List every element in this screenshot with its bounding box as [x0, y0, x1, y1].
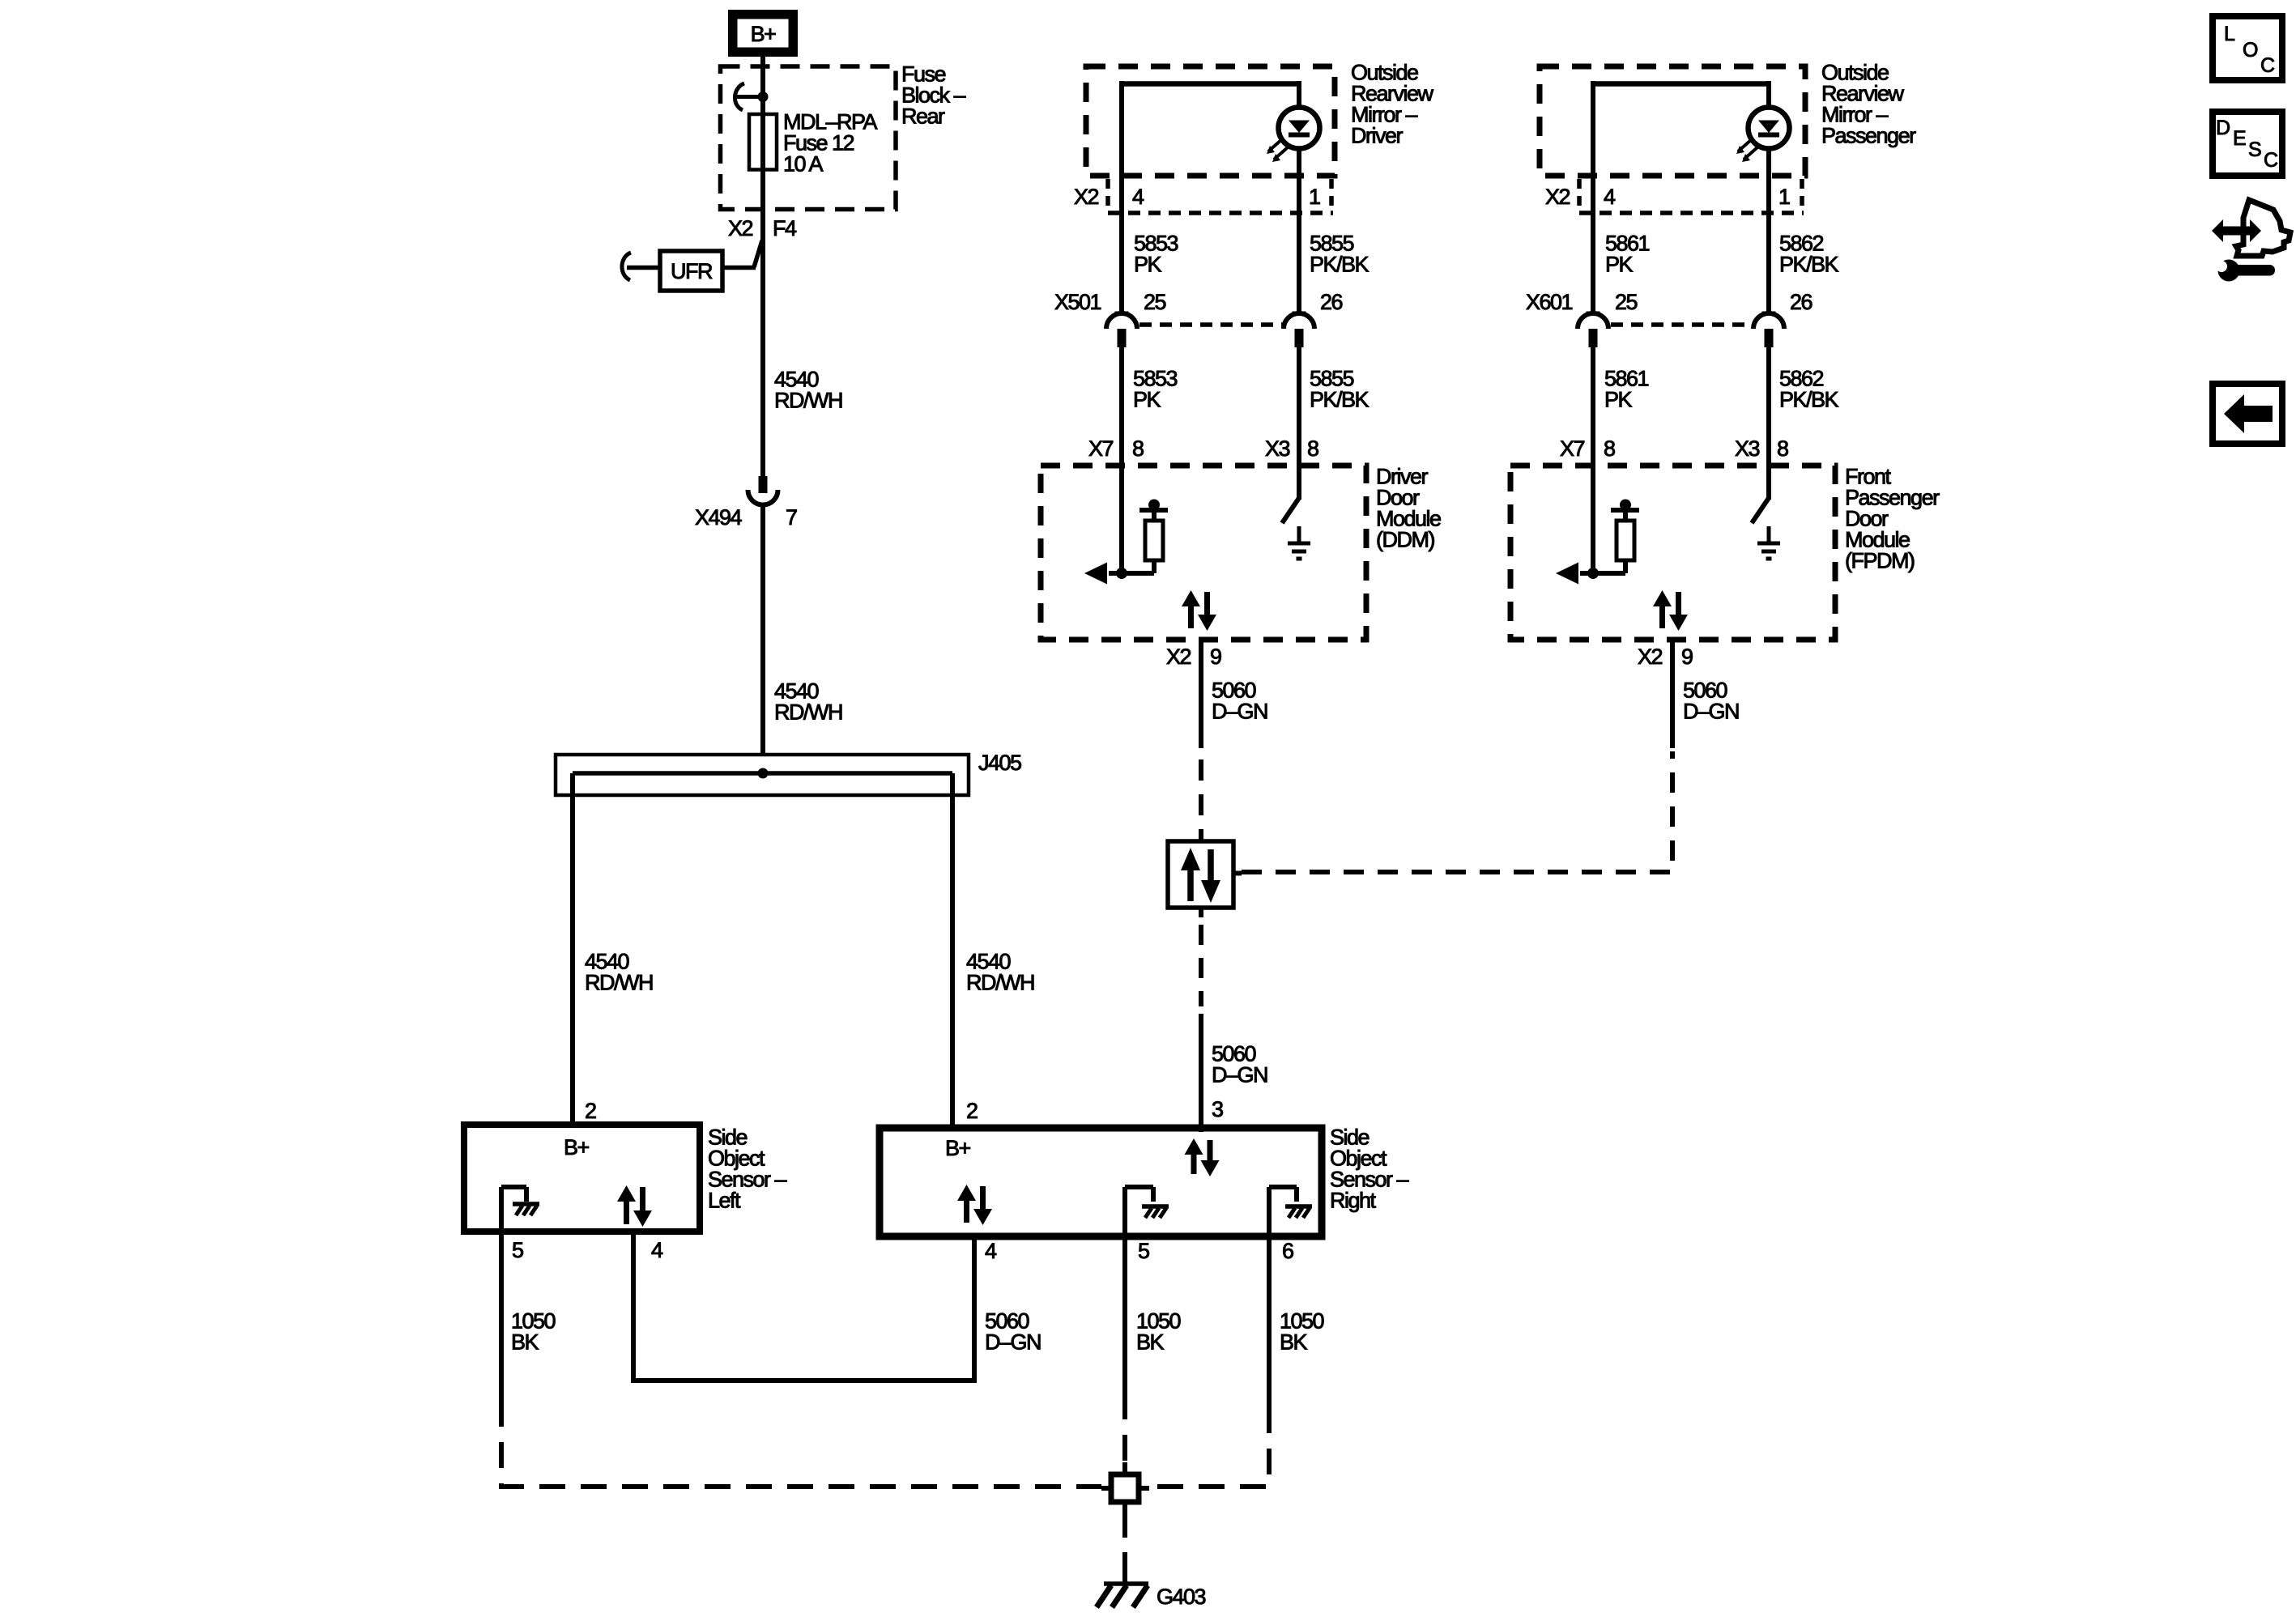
svg-text:C: C: [2264, 149, 2278, 172]
wire pin 6 right sensor 1050 BK: [1267, 1187, 1272, 1407]
wire junction box bottom stub: [1199, 908, 1203, 917]
svg-text:D–GN: D–GN: [1212, 1063, 1267, 1087]
svg-text:26: 26: [1790, 290, 1813, 314]
svg-text:PK: PK: [1605, 253, 1634, 277]
wire pin 5 right sensor 1050 BK: [1122, 1187, 1127, 1393]
svg-text:PK: PK: [1133, 388, 1161, 412]
svg-text:26: 26: [1320, 290, 1343, 314]
power node B+ (battery positive) box: [728, 10, 798, 57]
wire clip to bus junction: [737, 95, 763, 99]
svg-text:Rear: Rear: [901, 104, 945, 129]
serial arrows left side right sensor: [957, 1185, 976, 1201]
internal signal line with arrow to logic: [1580, 571, 1625, 576]
wire dashed to ground G403: [1122, 1513, 1127, 1579]
svg-text:PK: PK: [1604, 388, 1633, 412]
svg-text:(DDM): (DDM): [1376, 528, 1434, 552]
svg-text:RD/WH: RD/WH: [966, 971, 1034, 995]
side object sensor left box: [464, 1125, 700, 1232]
wire right into door module: [1766, 347, 1771, 500]
serial arrows top center right sensor: [1185, 1138, 1203, 1155]
svg-text:8: 8: [1604, 436, 1615, 461]
svg-text:8: 8: [1307, 436, 1318, 461]
svg-text:J405: J405: [978, 751, 1021, 775]
ground G403 chassis symbol: [1122, 1574, 1127, 1585]
ground bracket 1 inside right sensor: [1125, 1185, 1153, 1189]
door module Front dashed box: [1510, 466, 1835, 640]
connector X601 left half-connector: [1587, 312, 1600, 316]
wire pin 4 left sensor to right sensor 5060 D-GN U-link: [633, 1232, 974, 1381]
serial data arrows at module bottom: [1653, 590, 1672, 606]
wire right into door module: [1297, 347, 1301, 500]
switch to ground inside module: [1282, 498, 1299, 523]
svg-text:X7: X7: [1560, 436, 1585, 461]
wire dashed ground right sensor pin5 to splice: [1122, 1393, 1127, 1464]
svg-text:6: 6: [1282, 1239, 1293, 1263]
door module Driver dashed box: [1041, 466, 1366, 640]
svg-text:4: 4: [1604, 185, 1616, 209]
LED mirror turn signal symbol: [1279, 108, 1320, 149]
icon button DESC: [2213, 112, 2282, 176]
dotted line between connector halves: [1139, 322, 1284, 327]
wire mirror internal top loop: [1119, 81, 1124, 316]
connector X494 inline symbol: [759, 476, 768, 493]
internal supply bar and dot: [1139, 508, 1168, 513]
icon connector-view with double arrow and wrench: [2212, 219, 2261, 242]
svg-text:8: 8: [1777, 436, 1788, 461]
svg-text:G403: G403: [1157, 1585, 1206, 1609]
svg-text:RD/WH: RD/WH: [774, 700, 842, 725]
resistor pull-up inside module: [1145, 521, 1163, 560]
svg-text:9: 9: [1681, 645, 1693, 669]
internal signal line with arrow to logic: [1109, 571, 1154, 576]
svg-text:BK: BK: [1280, 1330, 1308, 1355]
splice pack J405 outer box: [556, 755, 969, 795]
svg-text:4: 4: [1132, 185, 1144, 209]
svg-text:25: 25: [1144, 290, 1166, 314]
wire dashed ground left sensor to splice: [501, 1401, 1101, 1487]
ground symbol inside module: [1297, 526, 1301, 543]
wire LED to pin 1: [1766, 147, 1771, 316]
svg-text:PK: PK: [1134, 253, 1162, 277]
wire dashed below junction box: [1199, 925, 1203, 1006]
switch to ground inside module: [1752, 498, 1769, 523]
wire left into door module: [1119, 347, 1124, 575]
svg-text:1: 1: [1778, 185, 1790, 209]
svg-text:4: 4: [985, 1239, 997, 1263]
svg-text:Left: Left: [708, 1189, 741, 1213]
connector X2 mirror strip dotted boundary: [1108, 211, 1333, 215]
svg-text:D: D: [2216, 117, 2230, 139]
svg-text:D–GN: D–GN: [1212, 700, 1267, 724]
wire pin 5 left sensor 1050 BK: [499, 1187, 504, 1401]
fuse block bus clip hook: [735, 83, 744, 110]
icon wrench: [2218, 260, 2240, 282]
ground symbol inside module: [1767, 526, 1771, 543]
svg-text:X2: X2: [1638, 645, 1663, 669]
svg-text:F4: F4: [773, 216, 797, 240]
svg-text:X3: X3: [1735, 436, 1760, 461]
wire UFR to branch point: [722, 266, 756, 270]
svg-text:RD/WH: RD/WH: [585, 971, 653, 995]
serial data arrows inside junction box: [1181, 848, 1200, 870]
ground bracket inside left sensor: [501, 1185, 526, 1189]
svg-text:5: 5: [512, 1238, 523, 1262]
resistor pull-up inside module: [1617, 521, 1634, 560]
outside rearview mirror passenger dashed box: [1540, 66, 1805, 176]
svg-text:S: S: [2248, 138, 2261, 161]
ground bracket 2 inside right sensor: [1269, 1185, 1297, 1189]
svg-text:3: 3: [1212, 1097, 1223, 1121]
svg-text:X501: X501: [1054, 290, 1101, 314]
svg-text:D–GN: D–GN: [1683, 700, 1739, 724]
wire mirror internal top loop: [1591, 81, 1595, 316]
svg-text:PK/BK: PK/BK: [1779, 253, 1839, 277]
internal supply bar and dot: [1611, 508, 1639, 513]
UFR stub end hook: [622, 253, 631, 280]
svg-text:X601: X601: [1526, 290, 1573, 314]
svg-text:Passenger: Passenger: [1821, 124, 1916, 148]
svg-text:X7: X7: [1088, 436, 1114, 461]
svg-text:X3: X3: [1265, 436, 1290, 461]
serial arrows inside left sensor: [617, 1185, 636, 1202]
wire branch diagonal to UFR: [754, 240, 762, 267]
wire B+ feed down through fuse to connector X494: [760, 57, 765, 477]
svg-text:E: E: [2233, 127, 2246, 150]
svg-text:(FPDM): (FPDM): [1845, 549, 1915, 573]
ground splice junction square: [1111, 1474, 1139, 1502]
svg-text:PK/BK: PK/BK: [1310, 253, 1370, 277]
connector X601 right half-connector: [1762, 312, 1776, 316]
svg-text:C: C: [2260, 54, 2275, 77]
svg-text:X2: X2: [728, 216, 753, 240]
wire J405 left branch 4540 RD/WH to left sensor: [570, 773, 575, 1127]
connector X2 mirror strip dotted boundary: [1579, 211, 1804, 215]
svg-text:UFR: UFR: [671, 259, 713, 283]
wire dashed ground right sensor pin6 to splice: [1149, 1407, 1269, 1487]
connector X501 left half-connector: [1115, 312, 1129, 316]
wire solid 5060 D-GN to right sensor pin 3: [1199, 1014, 1203, 1132]
svg-text:X2: X2: [1074, 185, 1099, 209]
splice J405 internal bus bar: [573, 771, 952, 776]
wire J405 right branch 4540 RD/WH to right sensor: [950, 773, 955, 1130]
serial data arrows at module bottom: [1182, 590, 1200, 606]
LED emission arrows: [1268, 139, 1282, 151]
svg-text:2: 2: [966, 1099, 978, 1123]
wire 4540 RD/WH from X494 to splice J405: [760, 504, 765, 756]
connector X501 right half-connector: [1293, 312, 1306, 316]
svg-text:BK: BK: [1136, 1330, 1165, 1355]
icon button LOC: [2213, 16, 2282, 80]
wire UFR stub: [627, 266, 660, 270]
LED emission arrows: [1738, 139, 1752, 151]
component UFR box: [660, 251, 722, 291]
fuse MDL-RPA Fuse 12 10A symbol: [749, 114, 777, 170]
node junction dot on input wire: [1116, 568, 1127, 579]
svg-text:X494: X494: [695, 505, 743, 530]
svg-text:9: 9: [1210, 645, 1221, 669]
chassis ground glyph 2 right sensor: [1285, 1204, 1312, 1209]
svg-text:7: 7: [786, 505, 797, 530]
svg-text:X2: X2: [1545, 185, 1570, 209]
svg-text:10 A: 10 A: [783, 152, 824, 177]
svg-text:B+: B+: [945, 1136, 971, 1160]
serial data junction box: [1168, 841, 1233, 908]
wire 5060 D-GN drop: [1199, 640, 1203, 748]
svg-text:O: O: [2243, 39, 2258, 62]
fuse block - rear dashed outline: [721, 66, 897, 210]
wire dashed serial data DDM drop: [1199, 759, 1203, 841]
node junction dot on B+ feed: [758, 91, 769, 102]
svg-text:RD/WH: RD/WH: [774, 389, 842, 413]
node junction dot on input wire: [1587, 568, 1599, 579]
svg-text:8: 8: [1132, 436, 1144, 461]
svg-text:4: 4: [651, 1238, 663, 1262]
wire dashed serial data to FPDM drop: [1242, 751, 1672, 872]
svg-text:D–GN: D–GN: [985, 1330, 1041, 1355]
svg-text:B+: B+: [751, 22, 777, 46]
wire 5060 D-GN drop: [1670, 640, 1675, 748]
splice square stubs: [1101, 1486, 1111, 1491]
svg-text:X2: X2: [1166, 645, 1191, 669]
svg-text:BK: BK: [511, 1330, 539, 1355]
svg-text:B+: B+: [564, 1135, 590, 1159]
svg-text:PK/BK: PK/BK: [1310, 388, 1370, 412]
svg-text:Right: Right: [1330, 1189, 1377, 1213]
wire junction box right stub: [1233, 871, 1242, 876]
outside rearview mirror driver dashed box: [1086, 66, 1335, 176]
LED mirror turn signal symbol: [1749, 108, 1790, 149]
dotted line between connector halves: [1611, 322, 1754, 327]
svg-text:25: 25: [1615, 290, 1638, 314]
side object sensor right box: [880, 1128, 1322, 1236]
wire left into door module: [1591, 347, 1595, 575]
chassis ground glyph 1 right sensor: [1142, 1204, 1169, 1209]
svg-text:1: 1: [1309, 185, 1320, 209]
svg-text:5: 5: [1138, 1239, 1149, 1263]
node junction dot on J405 bus: [758, 768, 769, 779]
icon button back arrow: [2213, 384, 2282, 444]
chassis ground glyph left sensor: [513, 1202, 539, 1206]
svg-text:L: L: [2224, 23, 2235, 45]
svg-text:Driver: Driver: [1351, 124, 1404, 148]
svg-text:PK/BK: PK/BK: [1779, 388, 1839, 412]
wire LED to pin 1: [1297, 147, 1301, 316]
svg-text:2: 2: [585, 1099, 596, 1123]
